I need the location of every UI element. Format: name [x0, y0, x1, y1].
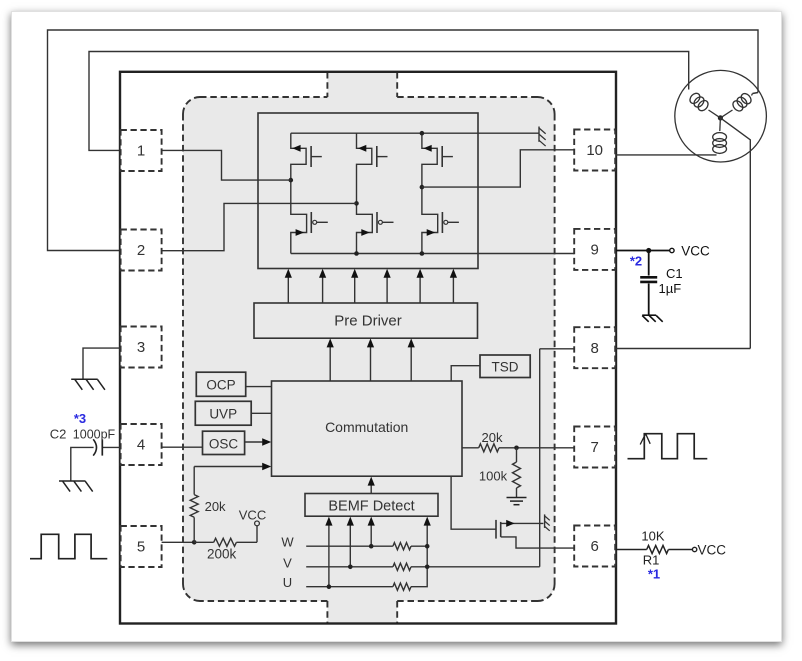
- svg-text:7: 7: [591, 439, 599, 456]
- svg-text:C1: C1: [666, 266, 683, 281]
- svg-text:Pre Driver: Pre Driver: [334, 312, 402, 329]
- svg-text:OCP: OCP: [206, 378, 235, 393]
- svg-text:6: 6: [591, 538, 599, 555]
- svg-text:*3: *3: [74, 411, 86, 426]
- svg-text:4: 4: [137, 437, 145, 454]
- svg-text:20k: 20k: [205, 499, 226, 514]
- svg-text:9: 9: [591, 242, 599, 259]
- svg-text:VCC: VCC: [239, 508, 266, 523]
- svg-text:10: 10: [586, 142, 603, 159]
- svg-text:V: V: [283, 555, 292, 570]
- svg-text:1: 1: [137, 143, 145, 160]
- svg-text:8: 8: [591, 340, 599, 357]
- svg-text:C2: C2: [50, 427, 67, 442]
- svg-text:*2: *2: [630, 254, 642, 269]
- svg-text:OSC: OSC: [209, 436, 239, 451]
- svg-text:VCC: VCC: [698, 542, 727, 557]
- svg-text:*1: *1: [648, 567, 660, 582]
- svg-text:Commutation: Commutation: [325, 419, 408, 435]
- svg-text:U: U: [283, 575, 292, 590]
- svg-text:W: W: [281, 535, 294, 550]
- svg-text:1000pF: 1000pF: [73, 428, 116, 442]
- svg-text:1µF: 1µF: [659, 281, 682, 296]
- svg-text:3: 3: [137, 339, 145, 356]
- svg-text:VCC: VCC: [681, 243, 710, 258]
- svg-text:200k: 200k: [207, 547, 237, 562]
- svg-text:5: 5: [137, 539, 145, 556]
- svg-text:20k: 20k: [482, 430, 503, 445]
- svg-text:2: 2: [137, 242, 145, 259]
- svg-text:TSD: TSD: [492, 360, 519, 375]
- svg-text:BEMF Detect: BEMF Detect: [328, 499, 414, 515]
- svg-text:100k: 100k: [479, 469, 508, 484]
- svg-text:R1: R1: [643, 553, 660, 568]
- svg-text:UVP: UVP: [209, 407, 237, 422]
- svg-text:10K: 10K: [641, 529, 664, 544]
